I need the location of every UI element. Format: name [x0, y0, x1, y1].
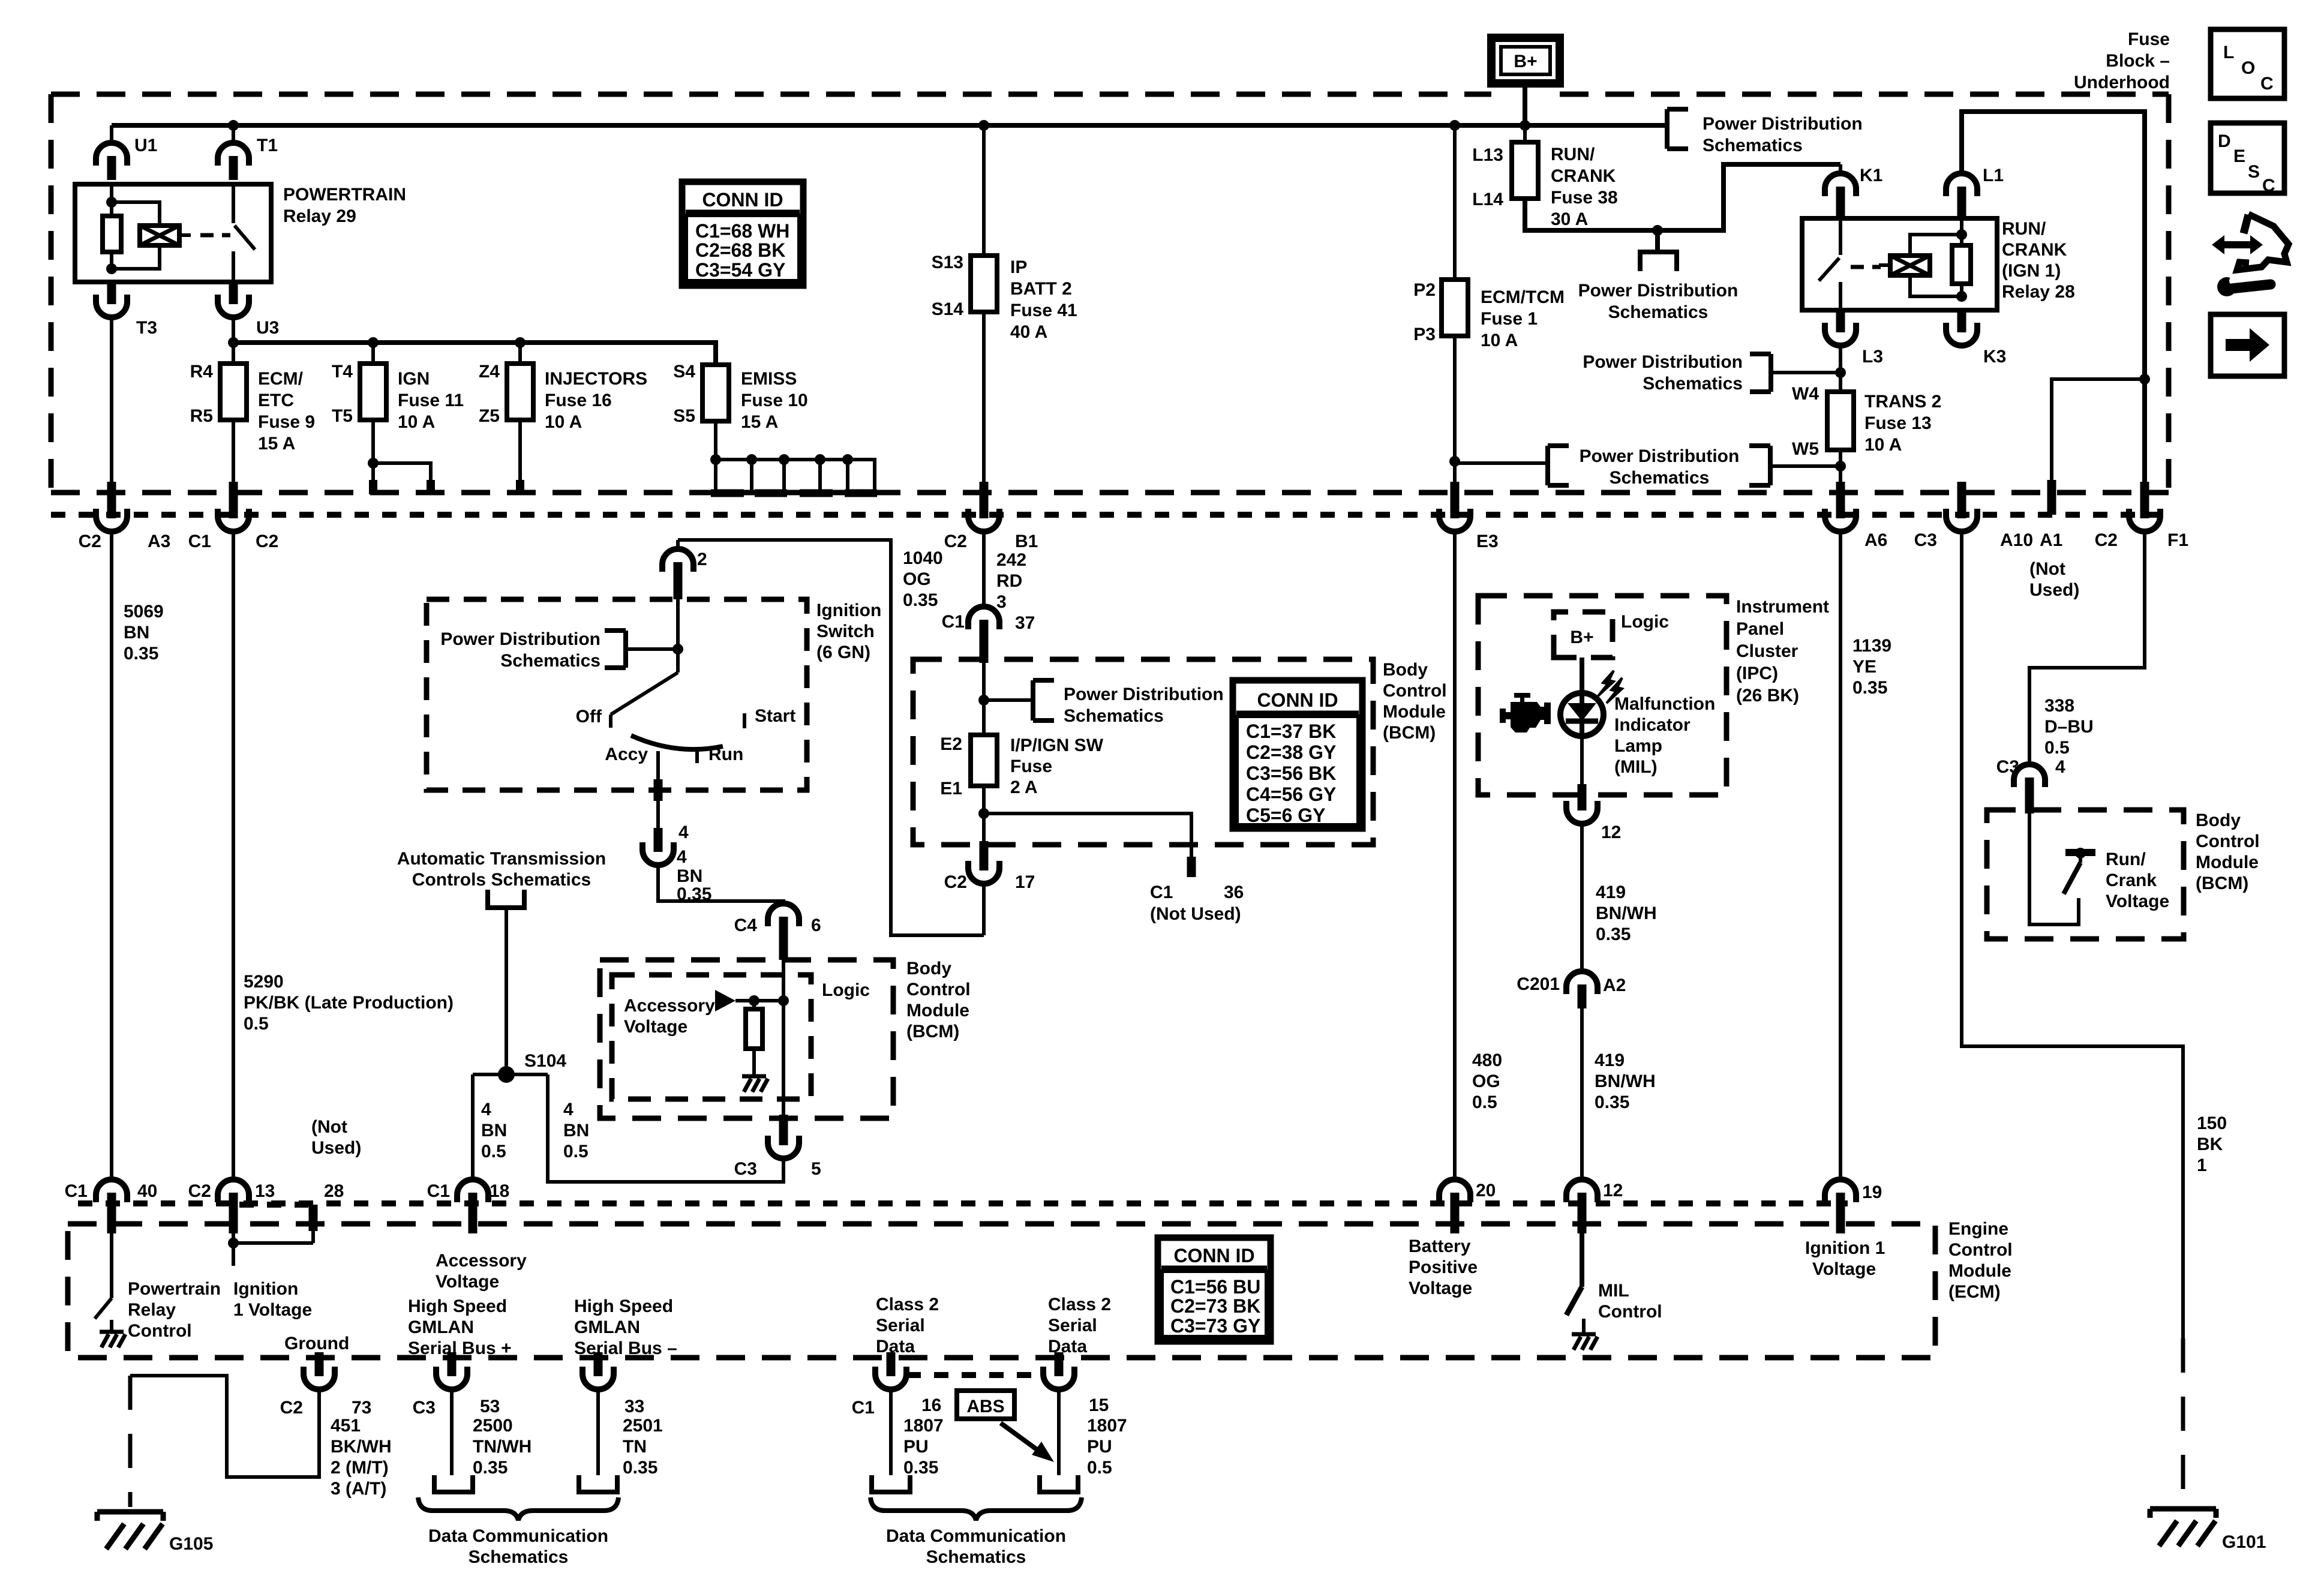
svg-text:451: 451 [331, 1416, 361, 1436]
wire fuse9 top [232, 343, 235, 364]
relay 29 coil node top [106, 197, 117, 208]
relay 28 coil leg wire [1960, 218, 1963, 296]
svg-text:C1=56 BU: C1=56 BU [1170, 1276, 1260, 1298]
svg-text:Underhood: Underhood [2074, 73, 2170, 92]
svg-text:C: C [2260, 74, 2274, 94]
svg-text:Power Distribution: Power Distribution [1064, 685, 1224, 704]
BCM right C3 stub [2025, 795, 2034, 813]
svg-text:C1: C1 [427, 1181, 450, 1201]
svg-text:Ignition: Ignition [816, 601, 881, 620]
svg-text:TRANS 2: TRANS 2 [1864, 392, 1941, 412]
svg-text:419: 419 [1596, 882, 1626, 902]
svg-text:Serial Bus –: Serial Bus – [574, 1338, 677, 1358]
svg-text:Run: Run [708, 745, 743, 764]
svg-text:4: 4 [678, 822, 689, 842]
svg-text:Battery: Battery [1409, 1236, 1471, 1256]
svg-text:Off: Off [576, 707, 602, 727]
svg-text:36: 36 [1224, 882, 1244, 902]
svg-text:Accessory: Accessory [436, 1251, 527, 1271]
svg-text:Power Distribution: Power Distribution [1703, 114, 1863, 134]
label A1 not used [2029, 530, 2079, 600]
wire fuse11 top [371, 343, 375, 364]
svg-text:C3=73 GY: C3=73 GY [1170, 1315, 1260, 1337]
off-page bracket: power distribution (fuse1, left) [1548, 446, 1739, 488]
connector C2-73 (ECM ground) [280, 1352, 372, 1418]
ECM pin 40 stub [107, 1212, 116, 1233]
svg-text:A1: A1 [2040, 530, 2062, 550]
relay 28 coil loop wires [1910, 235, 1962, 296]
node bus Z4 [515, 337, 526, 348]
svg-text:Ignition: Ignition [233, 1279, 298, 1299]
wire 338 D-BU (F1 to BCM C3-4) [2029, 532, 2145, 765]
svg-text:2500: 2500 [473, 1416, 513, 1436]
svg-text:S104: S104 [524, 1051, 566, 1071]
relay 29 resistor [103, 216, 121, 252]
svg-text:10 A: 10 A [1481, 331, 1518, 350]
svg-text:Accy: Accy [605, 745, 648, 764]
svg-text:CRANK: CRANK [1551, 166, 1616, 186]
svg-text:(IPC): (IPC) [1736, 664, 1778, 683]
node BCM bracket [978, 695, 989, 706]
off-page pigtail: power distribution (below fuse38) [1578, 230, 1739, 322]
terminator class2-16 [872, 1475, 910, 1492]
svg-text:O: O [2241, 58, 2255, 78]
ignition switch feed wire [676, 579, 680, 673]
svg-text:28: 28 [324, 1181, 344, 1201]
svg-text:13: 13 [255, 1181, 275, 1201]
wire fuse1 top [1453, 125, 1457, 280]
powertrain relay control label [128, 1279, 221, 1341]
svg-text:Start: Start [755, 706, 795, 726]
relay 28 resistor [1952, 245, 1971, 284]
svg-text:Schematics: Schematics [1703, 136, 1803, 155]
svg-text:Used): Used) [311, 1138, 361, 1158]
svg-text:17: 17 [1015, 872, 1035, 892]
svg-text:Malfunction: Malfunction [1614, 694, 1715, 714]
ECM class2-16 stub [887, 1354, 896, 1371]
class 2 serial data label 1 [876, 1295, 939, 1356]
sidebar swap-tools icon [2212, 214, 2289, 296]
svg-text:53: 53 [480, 1397, 500, 1416]
connector C3-5 (BCM) [734, 1121, 821, 1179]
wire 419 upper [1580, 824, 1584, 972]
ECM ground stub [315, 1354, 324, 1371]
ground label [284, 1334, 349, 1353]
fuse F9 labels [190, 362, 315, 454]
fuse F9 ECM/ETC [220, 364, 247, 420]
border stub S14 [980, 482, 989, 503]
connector C2-B1 [944, 494, 1038, 551]
svg-text:L13: L13 [1472, 145, 1503, 165]
off-page bracket: power distribution (ignition switch) [440, 629, 678, 671]
wire label 1139 YE 0.35 [1852, 636, 1891, 698]
wire S104 split [473, 1074, 783, 1182]
svg-text:Data Communication: Data Communication [428, 1526, 608, 1546]
connector C2-F1 [2095, 494, 2188, 550]
connector C1-37 (BCM) [942, 607, 1035, 644]
connector C3-53 (ECM) [413, 1352, 500, 1418]
svg-text:I/P/IGN SW: I/P/IGN SW [1010, 736, 1104, 755]
svg-text:15: 15 [1089, 1395, 1109, 1415]
svg-text:C2: C2 [188, 1181, 211, 1201]
IPC logic B+ box [1554, 612, 1669, 658]
wire label 338 D-BU 0.5 [2044, 696, 2094, 758]
svg-text:BN: BN [677, 866, 702, 886]
svg-text:0.35: 0.35 [903, 590, 938, 610]
svg-text:C4: C4 [734, 915, 758, 935]
ECM pin 13 stub [229, 1212, 238, 1233]
border stub K3 out [1957, 482, 1966, 503]
conn id box (ECM) [1158, 1238, 1271, 1341]
wire 480 OG (E3 to ECM 20) [1453, 532, 1457, 1180]
node F1 branch [2139, 374, 2150, 385]
svg-text:(6 GN): (6 GN) [816, 643, 870, 662]
svg-text:S: S [2248, 162, 2260, 182]
connector C1-40 (ECM) [65, 1179, 158, 1217]
node T1 top [228, 120, 239, 131]
wire to power distribution bracket (top) [1525, 123, 1667, 128]
svg-text:Lamp: Lamp [1614, 736, 1662, 756]
ECM pin 12 stub [1578, 1212, 1587, 1233]
svg-text:12: 12 [1603, 1181, 1623, 1200]
svg-text:C: C [2262, 176, 2275, 196]
svg-text:Fuse: Fuse [1010, 757, 1052, 776]
svg-text:Z4: Z4 [479, 362, 500, 382]
ECM pin 20 stub [1451, 1212, 1460, 1233]
svg-text:Automatic Transmission: Automatic Transmission [397, 849, 606, 869]
svg-text:C5=6 GY: C5=6 GY [1246, 804, 1326, 826]
ground G101 [2150, 1509, 2266, 1552]
connector C201-A2 [1517, 971, 1626, 1008]
wire 1139 YE (A6 to ECM 19) [1839, 532, 1842, 1180]
svg-text:Power Distribution: Power Distribution [440, 629, 600, 649]
svg-text:P2: P2 [1413, 280, 1436, 300]
fuse F41 labels [932, 253, 1077, 342]
svg-text:Logic: Logic [822, 980, 870, 1000]
connector C3-A10 [1914, 494, 2033, 550]
svg-text:10 A: 10 A [398, 412, 435, 432]
svg-text:(BCM): (BCM) [1383, 723, 1436, 743]
svg-text:10 A: 10 A [1864, 435, 1902, 455]
relay 29 switch [233, 184, 255, 282]
svg-text:Switch: Switch [816, 622, 875, 641]
svg-text:Control: Control [1383, 681, 1447, 701]
svg-text:C3: C3 [413, 1398, 436, 1418]
svg-text:E1: E1 [940, 779, 962, 798]
svg-text:Fuse 13: Fuse 13 [1864, 413, 1932, 433]
border stub W5 out [1836, 482, 1845, 503]
relay 29 coil loop wires [112, 202, 160, 269]
BCM internal resistor [746, 1001, 762, 1074]
connector K3 [1946, 308, 2006, 367]
svg-text:L: L [2223, 43, 2234, 62]
svg-text:(Not: (Not [311, 1117, 347, 1137]
connector 12 (IPC) [1566, 786, 1621, 842]
svg-text:ECM/: ECM/ [258, 369, 304, 389]
wire 242 RD (B1 to BCM C1-37) [982, 532, 986, 608]
svg-text:242: 242 [996, 550, 1026, 570]
node bus U3 [228, 337, 239, 348]
svg-text:E3: E3 [1476, 532, 1499, 551]
ignition switch label [816, 601, 881, 662]
svg-text:TN/WH: TN/WH [473, 1437, 532, 1457]
svg-text:A3: A3 [148, 532, 170, 551]
wire fuse16 bottom to edge [518, 420, 522, 494]
wire label 451 BK/WH [331, 1416, 392, 1499]
svg-text:0.5: 0.5 [1472, 1092, 1497, 1112]
wire fuse38 top [1523, 125, 1527, 142]
fuse F1 labels [1413, 280, 1565, 350]
svg-text:19: 19 [1862, 1182, 1882, 1202]
relay 28 label [2002, 219, 2075, 302]
border stub F1 [2140, 482, 2149, 503]
MIL control switch [1566, 1233, 1582, 1315]
engine icon [1500, 693, 1551, 733]
svg-text:Voltage: Voltage [2106, 891, 2169, 911]
svg-text:C2=38 GY: C2=38 GY [1246, 742, 1336, 763]
MIL control ground [1572, 1319, 1598, 1350]
svg-text:Schematics: Schematics [1064, 706, 1164, 726]
ECM pin 19 stub [1836, 1212, 1845, 1233]
svg-text:C1: C1 [1150, 882, 1173, 902]
svg-text:Instrument: Instrument [1736, 597, 1829, 617]
wire label 480 OG 0.5 [1472, 1050, 1502, 1112]
wire fuse41 bottom to edge [982, 312, 986, 493]
connector C3-4 (BCM right) [1996, 757, 2065, 801]
svg-text:Relay: Relay [128, 1300, 176, 1320]
svg-text:C2: C2 [79, 532, 101, 551]
svg-text:Fuse 1: Fuse 1 [1481, 309, 1538, 329]
ignition switch blade [611, 673, 678, 728]
svg-text:(26 BK): (26 BK) [1736, 686, 1799, 706]
svg-text:(BCM): (BCM) [2196, 873, 2248, 893]
svg-text:Serial: Serial [876, 1316, 925, 1335]
svg-text:0.35: 0.35 [623, 1458, 657, 1478]
svg-text:PU: PU [1087, 1437, 1112, 1457]
fuse F13 TRANS 2 [1827, 392, 1854, 450]
svg-text:U1: U1 [134, 136, 157, 155]
svg-text:C2=73 BK: C2=73 BK [1170, 1295, 1260, 1317]
wire 451 BK/WH to G105 [130, 1376, 319, 1477]
svg-text:CRANK: CRANK [2002, 240, 2067, 260]
svg-text:Voltage: Voltage [624, 1017, 687, 1037]
wire 5290 PK/BK (C2 to ECM pin 13) [232, 532, 235, 1180]
label not used 28 [311, 1117, 361, 1158]
svg-text:MIL: MIL [1598, 1281, 1629, 1301]
class 2 serial data label 2 [1048, 1295, 1111, 1356]
svg-text:E2: E2 [940, 734, 962, 754]
svg-text:CONN ID: CONN ID [702, 189, 783, 211]
wire fuse 2A bottom [982, 786, 986, 845]
svg-text:C3=54 GY: C3=54 GY [695, 259, 785, 281]
wire ignition feed drop [676, 540, 680, 550]
data communication label 2 [886, 1526, 1066, 1567]
wire K1 drop [1839, 164, 1842, 175]
svg-text:Fuse 41: Fuse 41 [1010, 301, 1077, 320]
svg-text:S4: S4 [673, 362, 695, 382]
fuse F38 RUN/CRANK [1512, 142, 1538, 199]
BCM C4 stub to box [779, 936, 788, 960]
fuse F16 labels [479, 362, 647, 432]
relay 28 coil node bottom [1956, 291, 1967, 302]
svg-text:S13: S13 [932, 253, 963, 272]
svg-text:BN: BN [481, 1121, 507, 1140]
ECM label [1948, 1219, 2013, 1302]
high speed gmlan - label [574, 1296, 677, 1358]
fuse F11 labels [332, 362, 464, 432]
svg-text:0.35: 0.35 [677, 884, 711, 904]
wire L3 down [1839, 346, 1842, 392]
svg-text:OG: OG [1472, 1071, 1500, 1091]
connector A6 [1825, 494, 1887, 550]
wire label 150 BK 1 [2197, 1113, 2227, 1175]
ECM gmlan- stub [594, 1354, 603, 1371]
svg-text:IP: IP [1010, 257, 1027, 277]
powertrain relay control ground [100, 1320, 125, 1347]
wire B+ to MIL lamp [1580, 658, 1584, 694]
svg-text:Body: Body [1383, 660, 1428, 680]
relay 29 U3 stub [229, 282, 238, 303]
svg-text:BN: BN [563, 1121, 589, 1140]
relay 28 K3 stub [1957, 310, 1966, 331]
svg-text:1807: 1807 [903, 1416, 944, 1436]
off-page bracket: power distribution (W4) [1583, 352, 1840, 394]
connector U1 [96, 136, 157, 180]
svg-text:G101: G101 [2222, 1532, 2266, 1552]
svg-text:16: 16 [921, 1395, 941, 1415]
svg-text:C1: C1 [942, 612, 965, 632]
off-page bracket: power distribution (top right of B+) [1667, 109, 1863, 155]
svg-text:0.5: 0.5 [563, 1142, 588, 1161]
svg-text:10 A: 10 A [545, 412, 582, 432]
svg-text:G105: G105 [169, 1534, 213, 1554]
svg-text:BK: BK [2197, 1134, 2223, 1154]
node ignition pivot feed [672, 644, 683, 655]
svg-text:Run/: Run/ [2106, 849, 2146, 869]
fuse bus wire [233, 343, 716, 365]
wire fuse9 bottom to edge [232, 420, 235, 493]
powertrain relay 29 box [75, 184, 271, 282]
fuse F1 ECM/TCM [1442, 280, 1468, 336]
fuse F10 labels [673, 362, 807, 432]
BCM C3-5 stub [779, 1115, 788, 1130]
svg-text:20: 20 [1476, 1181, 1496, 1200]
relay 28 L3 stub [1836, 310, 1845, 331]
svg-text:Fuse 10: Fuse 10 [741, 391, 808, 410]
svg-text:4: 4 [481, 1100, 491, 1119]
svg-text:D–BU: D–BU [2044, 717, 2094, 737]
svg-text:C3: C3 [1914, 530, 1937, 550]
BCM lower-left logic inner box [612, 975, 811, 1099]
wire label 4 BN 0.35 [677, 847, 711, 904]
wire label 2500 TN/WH 0.35 [473, 1416, 532, 1478]
svg-text:Ground: Ground [284, 1334, 349, 1353]
in-line connector dotted row (upper) [51, 512, 2169, 518]
node P2 top [1449, 120, 1460, 131]
svg-text:R5: R5 [190, 406, 213, 426]
wire T3 down to block edge [110, 317, 113, 493]
wire fuse1 to bracket [1455, 461, 1548, 465]
svg-text:Schematics: Schematics [1643, 374, 1743, 394]
ignition switch dashed box [427, 599, 807, 790]
svg-text:12: 12 [1601, 822, 1621, 842]
svg-text:15 A: 15 A [258, 434, 295, 454]
svg-text:(Not Used): (Not Used) [1150, 904, 1241, 924]
pin 28 stub [313, 1181, 344, 1231]
svg-text:Control: Control [1948, 1240, 2013, 1260]
svg-text:S14: S14 [932, 299, 964, 319]
BCM lower-left labels [822, 959, 971, 1041]
wire BCM fuse feed [982, 663, 986, 735]
connector T1 [218, 136, 278, 180]
svg-text:3: 3 [996, 592, 1007, 612]
svg-text:F1: F1 [2167, 530, 2188, 550]
svg-text:(MIL): (MIL) [1614, 757, 1658, 777]
svg-text:Fuse 11: Fuse 11 [398, 391, 464, 410]
node S104 [498, 1051, 566, 1083]
svg-text:Module: Module [1948, 1261, 2011, 1281]
BCM center dashed box [913, 659, 1373, 845]
node bus T4 [368, 337, 379, 348]
svg-text:(IGN 1): (IGN 1) [2002, 261, 2061, 281]
pins 13-28 jumper [228, 1231, 313, 1266]
wire label 242 RD 3 [996, 550, 1026, 612]
powertrain relay control switch [95, 1233, 112, 1319]
svg-text:Schematics: Schematics [926, 1547, 1026, 1567]
svg-text:C2=68 BK: C2=68 BK [695, 239, 785, 261]
svg-text:E: E [2233, 146, 2245, 166]
wire fuse11 bottom branch [368, 420, 431, 494]
ignition Start tick [744, 706, 795, 728]
wire label 2501 TN 0.35 [623, 1416, 663, 1478]
svg-text:D: D [2218, 131, 2231, 151]
svg-text:L3: L3 [1862, 347, 1883, 367]
svg-text:BN/WH: BN/WH [1595, 1071, 1656, 1091]
wire B+ feed down [1523, 83, 1527, 125]
svg-text:73: 73 [352, 1398, 371, 1418]
svg-text:C1: C1 [188, 532, 211, 551]
svg-text:BK/WH: BK/WH [331, 1437, 392, 1457]
wire fuse10 bottom comb [710, 421, 877, 493]
wire fuse16 top [518, 343, 522, 364]
BCM right label [2196, 810, 2260, 893]
svg-text:37: 37 [1015, 613, 1035, 633]
terminator class2-15 [1040, 1475, 1078, 1492]
svg-text:Control: Control [2196, 831, 2260, 851]
wire 4 BN to S104 [505, 908, 508, 1074]
connector C1-16 (ECM) [852, 1352, 942, 1418]
svg-text:POWERTRAIN: POWERTRAIN [283, 185, 406, 205]
connector E3 [1439, 494, 1499, 551]
svg-text:BATT 2: BATT 2 [1010, 279, 1072, 299]
wire G105 dashed lead [128, 1376, 133, 1507]
wire label 419 BN/WH 0.35 upper [1596, 882, 1657, 944]
high speed gmlan + label [408, 1296, 512, 1358]
wire label 419 BN/WH 0.35 lower [1595, 1050, 1656, 1112]
svg-text:A2: A2 [1603, 975, 1626, 995]
svg-text:C2: C2 [944, 532, 967, 551]
connector C2-13 (ECM) [188, 1179, 275, 1217]
svg-text:High Speed: High Speed [574, 1296, 673, 1316]
svg-text:P3: P3 [1413, 325, 1436, 344]
connector 2 (ignition switch) [662, 549, 707, 599]
svg-text:BN: BN [124, 623, 149, 643]
ECM dashed box [68, 1224, 1935, 1358]
svg-text:Data: Data [876, 1337, 915, 1356]
svg-text:2 (M/T): 2 (M/T) [331, 1458, 389, 1478]
run/crank relay 28 box [1802, 218, 1997, 310]
svg-text:Crank: Crank [2106, 870, 2157, 890]
